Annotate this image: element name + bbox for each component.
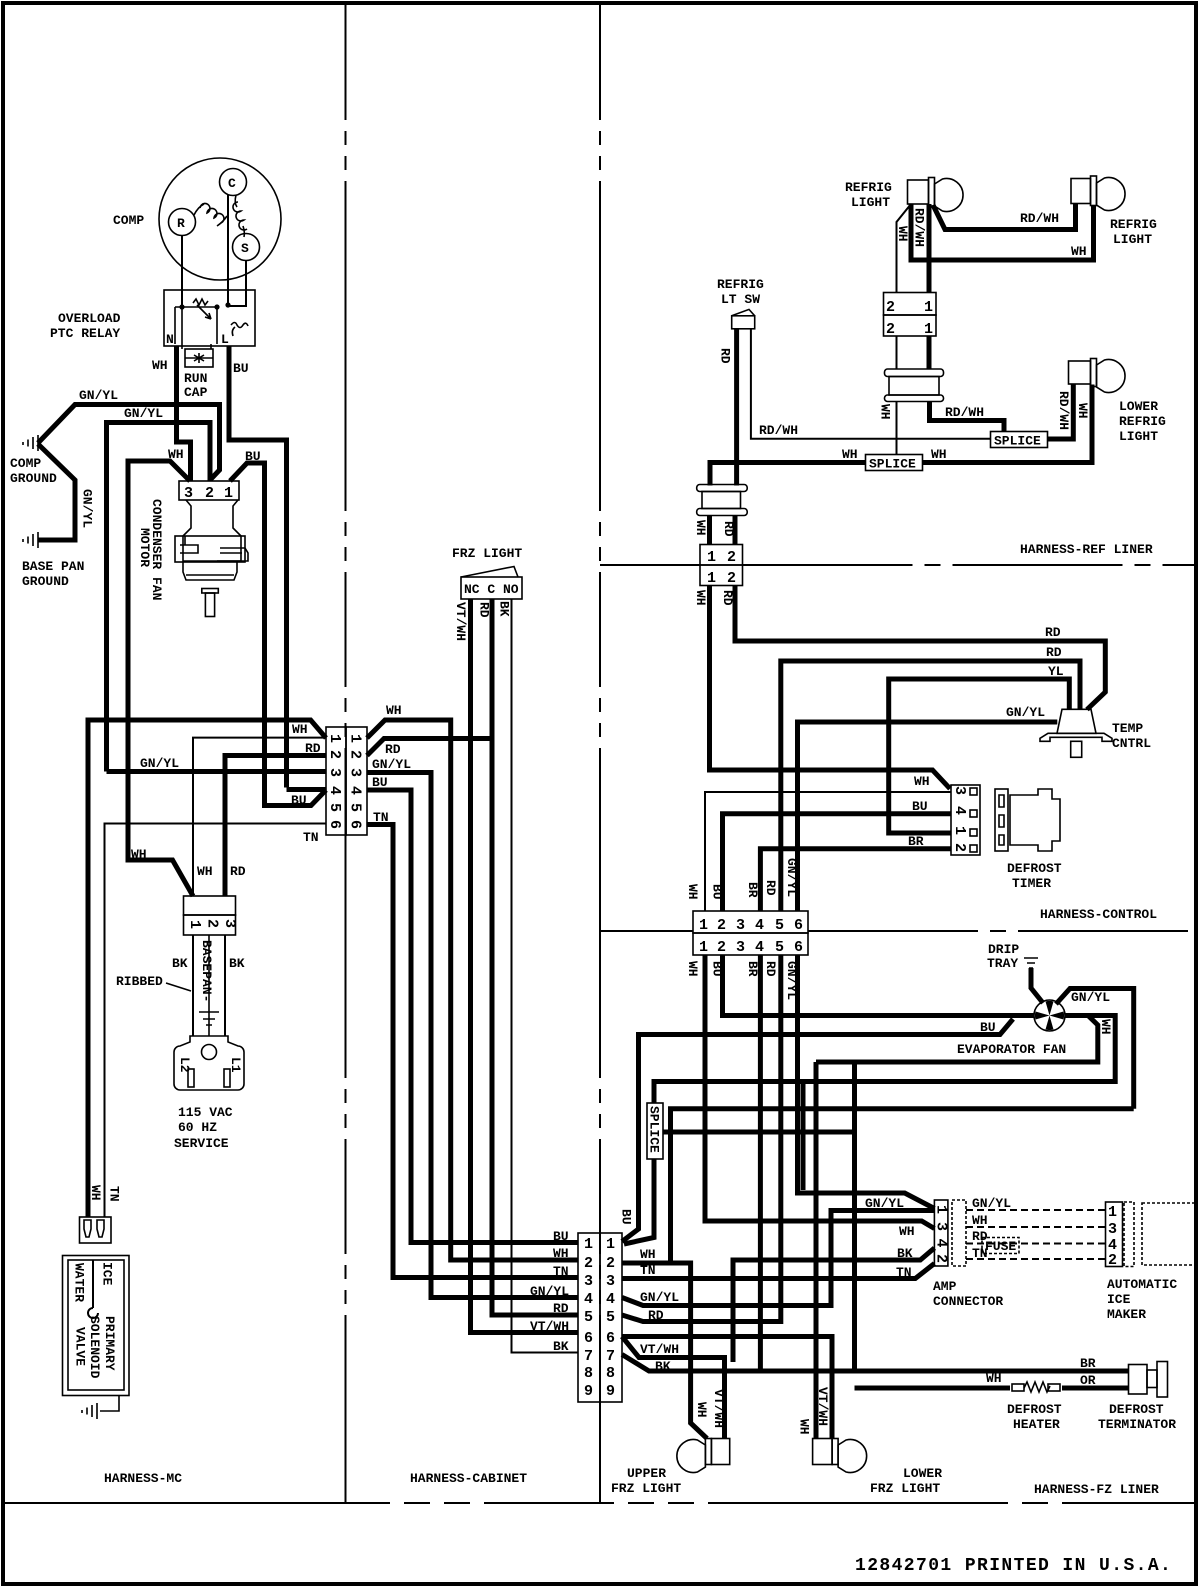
svg-text:GN/YL: GN/YL xyxy=(80,489,95,528)
wire BK left basepan to plug xyxy=(192,935,194,1036)
svg-text:CONNECTOR: CONNECTOR xyxy=(933,1294,1003,1309)
wire WH lower frz light riser xyxy=(814,1062,819,1439)
harness-control dashed line xyxy=(600,930,693,932)
wire WH fan loop to splice xyxy=(816,1016,1098,1063)
wire WH lower light to lower splice xyxy=(923,385,1093,463)
wire WH H2 branch xyxy=(671,1109,1134,1263)
svg-text:BK: BK xyxy=(497,601,512,617)
basepan center ground wire xyxy=(199,935,219,1036)
wire BU relay L right loop xyxy=(229,346,287,788)
svg-text:1: 1 xyxy=(186,920,203,929)
wire R to relay xyxy=(181,236,183,308)
svg-text:YL: YL xyxy=(1048,664,1064,679)
svg-text:GN/YL: GN/YL xyxy=(1006,705,1045,720)
divider harness-mc / harness-cabinet xyxy=(345,5,347,1503)
2-pin solenoid connector xyxy=(80,1217,112,1243)
wire RD/WH barrel to upper splice xyxy=(930,402,1005,433)
wire C to relay xyxy=(227,195,229,305)
svg-text:RD: RD xyxy=(763,880,778,896)
barrel inline connector right xyxy=(885,369,944,402)
svg-text:PTC RELAY: PTC RELAY xyxy=(50,326,120,341)
2x2 connector xyxy=(884,293,937,339)
svg-text:FRZ LIGHT: FRZ LIGHT xyxy=(611,1481,681,1496)
svg-text:N: N xyxy=(166,332,174,347)
wire BU harness pin2 to fan xyxy=(723,955,1035,1016)
svg-text:VALVE: VALVE xyxy=(73,1327,88,1366)
splice SPLICE vertical box xyxy=(647,1103,664,1159)
1|2 connector on ref-liner line xyxy=(700,545,743,588)
wire BU interconnect pin4 to 9pin1 xyxy=(367,790,578,1243)
svg-text:SOLENOID: SOLENOID xyxy=(87,1316,102,1379)
svg-text:COMP: COMP xyxy=(10,456,41,471)
svg-text:RD: RD xyxy=(721,521,736,537)
svg-text:1: 1 xyxy=(699,917,708,934)
svg-text:3: 3 xyxy=(221,919,238,928)
wire RD 9pin5 riser xyxy=(622,955,781,1322)
svg-text:3: 3 xyxy=(347,768,364,777)
svg-text:BR: BR xyxy=(745,882,760,898)
svg-text:1: 1 xyxy=(924,299,933,316)
svg-text:6: 6 xyxy=(794,939,803,956)
wire RD from switch joins pin2 RD, to 9pin5 xyxy=(492,599,578,1315)
dashed wires amp to ice maker xyxy=(952,1200,1105,1266)
svg-text:ICE: ICE xyxy=(1107,1292,1131,1307)
wire RD from LT SW xyxy=(734,329,739,486)
svg-text:6: 6 xyxy=(326,820,343,829)
svg-text:WH: WH xyxy=(797,1419,812,1435)
svg-text:TERMINATOR: TERMINATOR xyxy=(1098,1417,1176,1432)
wire RD/WH splice to lower refrig light xyxy=(1048,384,1074,440)
interconnect 6-pin connector (MC/cabinet) xyxy=(326,727,367,835)
svg-text:1: 1 xyxy=(347,734,364,743)
svg-text:4: 4 xyxy=(584,1291,593,1308)
svg-text:BU: BU xyxy=(553,1229,569,1244)
wire GN/YL harness-control pin6 to temp xyxy=(798,722,1058,911)
svg-text:1: 1 xyxy=(224,485,233,502)
svg-text:1: 1 xyxy=(584,1236,593,1253)
svg-text:TN: TN xyxy=(303,830,319,845)
svg-text:WH: WH xyxy=(386,703,402,718)
wire VT/WH 9pin6 to lower frz light xyxy=(622,1337,832,1439)
svg-text:GN/YL: GN/YL xyxy=(372,757,411,772)
svg-text:L1: L1 xyxy=(228,1057,243,1073)
svg-text:6: 6 xyxy=(347,820,364,829)
svg-text:4: 4 xyxy=(933,1239,950,1248)
base pan ground symbol xyxy=(23,532,38,548)
svg-text:L2: L2 xyxy=(177,1057,192,1073)
wire VT/WH branch to upper frz light xyxy=(622,1337,725,1439)
svg-text:WH: WH xyxy=(895,226,910,242)
divider harness-cabinet / fz-liner xyxy=(599,5,601,1503)
barrel inline connector left xyxy=(697,485,748,516)
svg-text:2: 2 xyxy=(727,570,736,587)
harness-control 6-pin connector xyxy=(693,911,808,956)
wire WH interconnect pin1 to 9pin2 xyxy=(367,720,578,1260)
svg-text:7: 7 xyxy=(584,1348,593,1365)
defrost heater line WH/OR xyxy=(855,1382,1129,1392)
svg-text:RD/WH: RD/WH xyxy=(945,405,984,420)
svg-text:3: 3 xyxy=(184,485,193,502)
svg-text:LOWER: LOWER xyxy=(903,1466,942,1481)
svg-text:GROUND: GROUND xyxy=(22,574,69,589)
svg-text:TEMP: TEMP xyxy=(1112,721,1143,736)
svg-text:HARNESS-MC: HARNESS-MC xyxy=(104,1471,182,1486)
heater zigzag with arrow xyxy=(193,299,211,319)
svg-text:CNTRL: CNTRL xyxy=(1112,736,1151,751)
svg-text:2: 2 xyxy=(886,321,895,338)
svg-text:1: 1 xyxy=(707,549,716,566)
svg-text:5: 5 xyxy=(347,803,364,812)
svg-text:5: 5 xyxy=(775,939,784,956)
harness-ref-liner dashed line xyxy=(600,564,700,566)
wire VT/WH from switch to 9pin6 xyxy=(471,599,579,1333)
svg-text:3: 3 xyxy=(951,786,968,795)
svg-text:5: 5 xyxy=(584,1309,593,1326)
wire WH relay N down jog to pin3 xyxy=(177,346,191,481)
primary water/ice solenoid valve box xyxy=(63,1256,130,1396)
wire BK from switch to 9pin7 xyxy=(512,599,579,1353)
svg-text:BR: BR xyxy=(745,961,760,977)
svg-text:HARNESS-CONTROL: HARNESS-CONTROL xyxy=(1040,907,1157,922)
svg-text:BU: BU xyxy=(291,793,307,808)
svg-text:LOWER: LOWER xyxy=(1119,399,1158,414)
svg-text:FRZ LIGHT: FRZ LIGHT xyxy=(870,1481,940,1496)
wire GN/YL to pin3 xyxy=(107,769,327,774)
svg-text:4: 4 xyxy=(347,786,364,795)
svg-text:WH: WH xyxy=(899,1224,915,1239)
svg-text:9: 9 xyxy=(584,1383,593,1400)
wire TN to pin6 xyxy=(105,824,327,1218)
svg-text:115 VAC: 115 VAC xyxy=(178,1105,233,1120)
svg-text:FRZ LIGHT: FRZ LIGHT xyxy=(452,546,522,561)
svg-text:RD: RD xyxy=(477,602,492,618)
run cap RUN CAP xyxy=(182,307,213,367)
svg-text:1: 1 xyxy=(924,321,933,338)
svg-text:WATER: WATER xyxy=(72,1263,87,1302)
wire RD thick to pin2 xyxy=(225,756,326,897)
svg-text:TN: TN xyxy=(107,1186,122,1202)
svg-text:GN/YL: GN/YL xyxy=(1071,990,1110,1005)
svg-text:WH: WH xyxy=(553,1246,569,1261)
svg-text:WH: WH xyxy=(197,864,213,879)
svg-text:WH: WH xyxy=(694,1402,709,1418)
svg-text:RD: RD xyxy=(763,961,778,977)
svg-text:DEFROST: DEFROST xyxy=(1007,861,1062,876)
wire GN/YL pin6 to amp pin1 xyxy=(798,955,935,1209)
svg-text:REFRIG: REFRIG xyxy=(1119,414,1166,429)
svg-text:WH: WH xyxy=(1098,1019,1113,1035)
svg-text:2: 2 xyxy=(717,917,726,934)
svg-text:BR: BR xyxy=(1080,1356,1096,1371)
refrig light switch xyxy=(732,309,755,328)
wire BU harness-control pin2 to timer pin4 xyxy=(723,814,952,911)
svg-text:RIBBED: RIBBED xyxy=(116,974,163,989)
svg-text:GN/YL: GN/YL xyxy=(640,1290,679,1305)
wire BU pin1 to interconnect pin4 xyxy=(230,463,326,806)
refrig light 2 socket+bulb xyxy=(1071,176,1125,210)
defrost timer connector + body xyxy=(951,785,1060,855)
wire YL timer pin1 to temp xyxy=(889,679,1070,833)
upper SPLICE box xyxy=(991,432,1048,449)
svg-text:TN: TN xyxy=(553,1264,569,1279)
wires barrel to 1|2 connector xyxy=(707,516,712,545)
svg-text:8: 8 xyxy=(584,1365,593,1382)
svg-text:1: 1 xyxy=(1108,1204,1117,1221)
svg-text:1: 1 xyxy=(606,1236,615,1253)
wire fan outer loop xyxy=(654,1016,1115,1104)
svg-text:TN: TN xyxy=(896,1265,912,1280)
wire GN/YL line2 to pin2 xyxy=(107,423,211,772)
svg-text:WH: WH xyxy=(914,774,930,789)
svg-text:LT SW: LT SW xyxy=(721,292,760,307)
svg-text:RD/WH: RD/WH xyxy=(1056,391,1071,430)
wire BU 9pin1 riser xyxy=(622,1019,1013,1242)
svg-text:EVAPORATOR FAN: EVAPORATOR FAN xyxy=(957,1042,1066,1057)
svg-text:BU: BU xyxy=(619,1209,634,1225)
svg-text:TIMER: TIMER xyxy=(1012,876,1051,891)
svg-text:BU: BU xyxy=(233,361,249,376)
svg-text:PRIMARY: PRIMARY xyxy=(102,1316,117,1371)
wire WH barrel to splice xyxy=(896,402,898,455)
svg-text:2: 2 xyxy=(584,1255,593,1272)
solenoid ground wire + symbol xyxy=(82,1395,119,1419)
svg-text:GN/YL: GN/YL xyxy=(972,1196,1011,1211)
svg-text:4: 4 xyxy=(755,917,764,934)
svg-text:WH: WH xyxy=(685,961,700,977)
svg-text:VT/WH: VT/WH xyxy=(815,1387,830,1426)
refrig light 1 socket+bulb xyxy=(908,178,964,212)
svg-text:6: 6 xyxy=(606,1330,615,1347)
wire BK 9pin7 to defrost line xyxy=(622,1355,855,1372)
svg-text:REFRIG: REFRIG xyxy=(845,180,892,195)
svg-text:4: 4 xyxy=(951,806,968,815)
svg-text:5: 5 xyxy=(775,917,784,934)
svg-text:DEFROST: DEFROST xyxy=(1109,1402,1164,1417)
svg-text:2: 2 xyxy=(717,939,726,956)
svg-text:WH: WH xyxy=(88,1185,103,1201)
wire GN/YL line1 comp-ground to pin2 xyxy=(38,405,220,480)
lower refrig light socket+bulb xyxy=(1069,359,1126,393)
svg-text:BASE PAN: BASE PAN xyxy=(22,559,84,574)
wires 2x2 to barrel xyxy=(896,336,898,369)
wire RD/WH thin LT SW to upper splice xyxy=(751,329,991,439)
wire GN/YL interconnect pin3 to 9pin4 xyxy=(367,773,578,1298)
svg-text:OVERLOAD: OVERLOAD xyxy=(58,311,121,326)
wire WH bulb1 to 2x2 pin2 xyxy=(897,204,912,293)
svg-text:L: L xyxy=(221,332,229,347)
svg-text:5: 5 xyxy=(606,1309,615,1326)
9-pin interconnect connector (cabinet/FZ liner) xyxy=(578,1233,622,1402)
svg-text:SPLICE: SPLICE xyxy=(994,434,1041,449)
svg-text:WH: WH xyxy=(931,447,947,462)
wire WH bulb2 down-left xyxy=(911,204,1094,260)
condenser fan motor connector 3 2 1 xyxy=(179,481,239,502)
wire RD2 harness-control pin5 to temp xyxy=(781,661,1080,911)
wire WH harness-control pin1 to timer pin3 xyxy=(705,792,951,911)
wire comp-ground to base-pan-ground xyxy=(38,444,75,540)
svg-text:4: 4 xyxy=(326,786,343,795)
winding C-S xyxy=(233,195,247,237)
svg-text:C: C xyxy=(228,176,236,191)
svg-text:RD: RD xyxy=(230,864,246,879)
svg-text:WH: WH xyxy=(842,447,858,462)
wire BR harness-control pin4 to timer pin2 xyxy=(760,849,951,911)
temp cntrl TEMP CNTRL xyxy=(1040,709,1112,757)
wire splice to 9pin1 xyxy=(624,1159,654,1244)
fuse FUSE dashed box xyxy=(982,1238,1019,1255)
svg-text:60 HZ: 60 HZ xyxy=(178,1120,217,1135)
svg-text:REFRIG: REFRIG xyxy=(717,277,764,292)
wire RD1 1|2 to temp cntrl xyxy=(735,586,1105,710)
svg-text:BU: BU xyxy=(710,884,725,900)
svg-text:SPLICE: SPLICE xyxy=(869,457,916,472)
svg-text:TN: TN xyxy=(373,810,389,825)
wire WH harness pin1 to amp pin3 xyxy=(705,955,934,1229)
comp ground symbol xyxy=(23,435,38,451)
overload PTC relay box xyxy=(164,290,255,346)
FRZ light switch NC C NO xyxy=(461,567,522,600)
svg-text:3: 3 xyxy=(736,939,745,956)
svg-text:2: 2 xyxy=(951,843,968,852)
svg-text:S: S xyxy=(241,241,249,256)
wire RD/WH bulb1 to 2x2 pin1 xyxy=(927,204,932,293)
svg-text:3: 3 xyxy=(933,1222,950,1231)
svg-text:RD: RD xyxy=(718,348,733,364)
svg-text:BK: BK xyxy=(172,956,188,971)
wire TN interconnect pin6 to 9pin3 xyxy=(367,825,578,1278)
svg-text:HARNESS-FZ LINER: HARNESS-FZ LINER xyxy=(1034,1482,1159,1497)
svg-text:BU: BU xyxy=(912,799,928,814)
svg-text:GN/YL: GN/YL xyxy=(784,858,799,897)
wire TN 9pin3 to amp pin2 xyxy=(622,1264,934,1279)
svg-text:1: 1 xyxy=(326,734,343,743)
svg-text:BK: BK xyxy=(553,1339,569,1354)
svg-text:RD: RD xyxy=(1045,625,1061,640)
drip tray ground symbol xyxy=(1024,958,1038,968)
svg-text:WH: WH xyxy=(878,404,893,420)
svg-text:BK: BK xyxy=(229,956,245,971)
svg-text:2: 2 xyxy=(886,299,895,316)
svg-text:MAKER: MAKER xyxy=(1107,1307,1146,1322)
svg-text:GN/YL: GN/YL xyxy=(124,406,163,421)
svg-text:CAP: CAP xyxy=(184,385,208,400)
svg-text:GN/YL: GN/YL xyxy=(865,1196,904,1211)
wire RD interconnect pin2 joins RD vertical xyxy=(367,739,492,756)
svg-text:4: 4 xyxy=(606,1291,615,1308)
svg-text:VT/WH: VT/WH xyxy=(530,1319,569,1334)
wire GN/YL fan loop to amp pin1 xyxy=(1056,989,1134,1109)
svg-text:RUN: RUN xyxy=(184,371,207,386)
evaporator fan symbol xyxy=(1034,1000,1065,1031)
svg-text:LIGHT: LIGHT xyxy=(851,195,890,210)
svg-text:3: 3 xyxy=(736,917,745,934)
svg-text:R: R xyxy=(177,216,185,231)
svg-text:12842701 PRINTED IN U.S.A.: 12842701 PRINTED IN U.S.A. xyxy=(855,1556,1172,1576)
svg-text:UPPER: UPPER xyxy=(627,1466,666,1481)
wire WH lower splice to LT SW column xyxy=(710,463,866,486)
svg-text:3: 3 xyxy=(1108,1221,1117,1238)
svg-text:GN/YL: GN/YL xyxy=(79,388,118,403)
svg-text:BK: BK xyxy=(655,1359,671,1374)
svg-text:WH: WH xyxy=(972,1213,988,1228)
wire WH loop motor left xyxy=(128,461,193,896)
svg-text:RD: RD xyxy=(385,742,401,757)
svg-text:2: 2 xyxy=(727,549,736,566)
svg-text:TN: TN xyxy=(640,1263,656,1278)
svg-text:2: 2 xyxy=(933,1254,950,1263)
svg-text:4: 4 xyxy=(755,939,764,956)
svg-text:DEFROST: DEFROST xyxy=(1007,1402,1062,1417)
svg-text:2: 2 xyxy=(347,750,364,759)
basepan connector xyxy=(184,896,239,935)
wire GN/YL riser from fan loop xyxy=(801,1082,806,1191)
svg-text:WH: WH xyxy=(685,884,700,900)
svg-text:1: 1 xyxy=(933,1205,950,1214)
svg-text:3: 3 xyxy=(606,1273,615,1290)
wire BK right basepan to plug xyxy=(224,935,226,1036)
svg-text:RD: RD xyxy=(553,1301,569,1316)
svg-text:WH: WH xyxy=(640,1247,656,1262)
wire RD thin basepan to pin2 xyxy=(193,738,326,896)
svg-text:REFRIG: REFRIG xyxy=(1110,217,1157,232)
svg-text:NC C NO: NC C NO xyxy=(464,582,519,597)
svg-text:WH: WH xyxy=(986,1371,1002,1386)
wire RD/WH bulb1 to bulb2 xyxy=(933,204,1076,230)
svg-text:GN/YL: GN/YL xyxy=(140,756,179,771)
svg-text:RD/WH: RD/WH xyxy=(912,208,927,247)
svg-text:WH: WH xyxy=(152,358,168,373)
svg-text:2: 2 xyxy=(606,1255,615,1272)
lower SPLICE box xyxy=(866,455,923,472)
svg-text:3: 3 xyxy=(584,1273,593,1290)
svg-text:GROUND: GROUND xyxy=(10,471,57,486)
svg-text:VT/WH: VT/WH xyxy=(640,1342,679,1357)
svg-text:RD/WH: RD/WH xyxy=(759,423,798,438)
svg-text:2: 2 xyxy=(204,919,221,928)
defrost terminator xyxy=(1129,1362,1168,1398)
svg-text:DRIP: DRIP xyxy=(988,942,1019,957)
svg-text:WH: WH xyxy=(1071,244,1087,259)
compressor COMP circle xyxy=(159,158,281,280)
upper frz light bulb xyxy=(677,1439,730,1473)
svg-text:7: 7 xyxy=(606,1348,615,1365)
svg-text:MOTOR: MOTOR xyxy=(137,528,152,567)
svg-text:BK: BK xyxy=(897,1246,913,1261)
svg-text:RD: RD xyxy=(305,741,321,756)
svg-text:LIGHT: LIGHT xyxy=(1119,429,1158,444)
switch contact xyxy=(231,323,248,337)
svg-text:FUSE: FUSE xyxy=(985,1239,1016,1254)
svg-text:6: 6 xyxy=(794,917,803,934)
wire BK riser to amp pin4 xyxy=(733,1248,934,1362)
115 VAC plug xyxy=(174,1036,244,1090)
svg-text:6: 6 xyxy=(584,1330,593,1347)
svg-text:ICE: ICE xyxy=(100,1262,115,1286)
svg-text:HARNESS-CABINET: HARNESS-CABINET xyxy=(410,1471,527,1486)
lower frz light bulb xyxy=(813,1439,867,1473)
svg-text:TRAY: TRAY xyxy=(987,956,1018,971)
svg-text:RD: RD xyxy=(1046,645,1062,660)
svg-text:RD/WH: RD/WH xyxy=(1020,211,1059,226)
svg-text:3: 3 xyxy=(326,768,343,777)
svg-text:GN/YL: GN/YL xyxy=(530,1284,569,1299)
wire BU to pin4 xyxy=(287,787,327,792)
amp connector AMP CONNECTOR xyxy=(933,1200,950,1266)
svg-text:5: 5 xyxy=(326,803,343,812)
bottom section line xyxy=(5,1502,1195,1504)
svg-text:AUTOMATIC: AUTOMATIC xyxy=(1107,1277,1177,1292)
svg-text:RD: RD xyxy=(648,1308,664,1323)
